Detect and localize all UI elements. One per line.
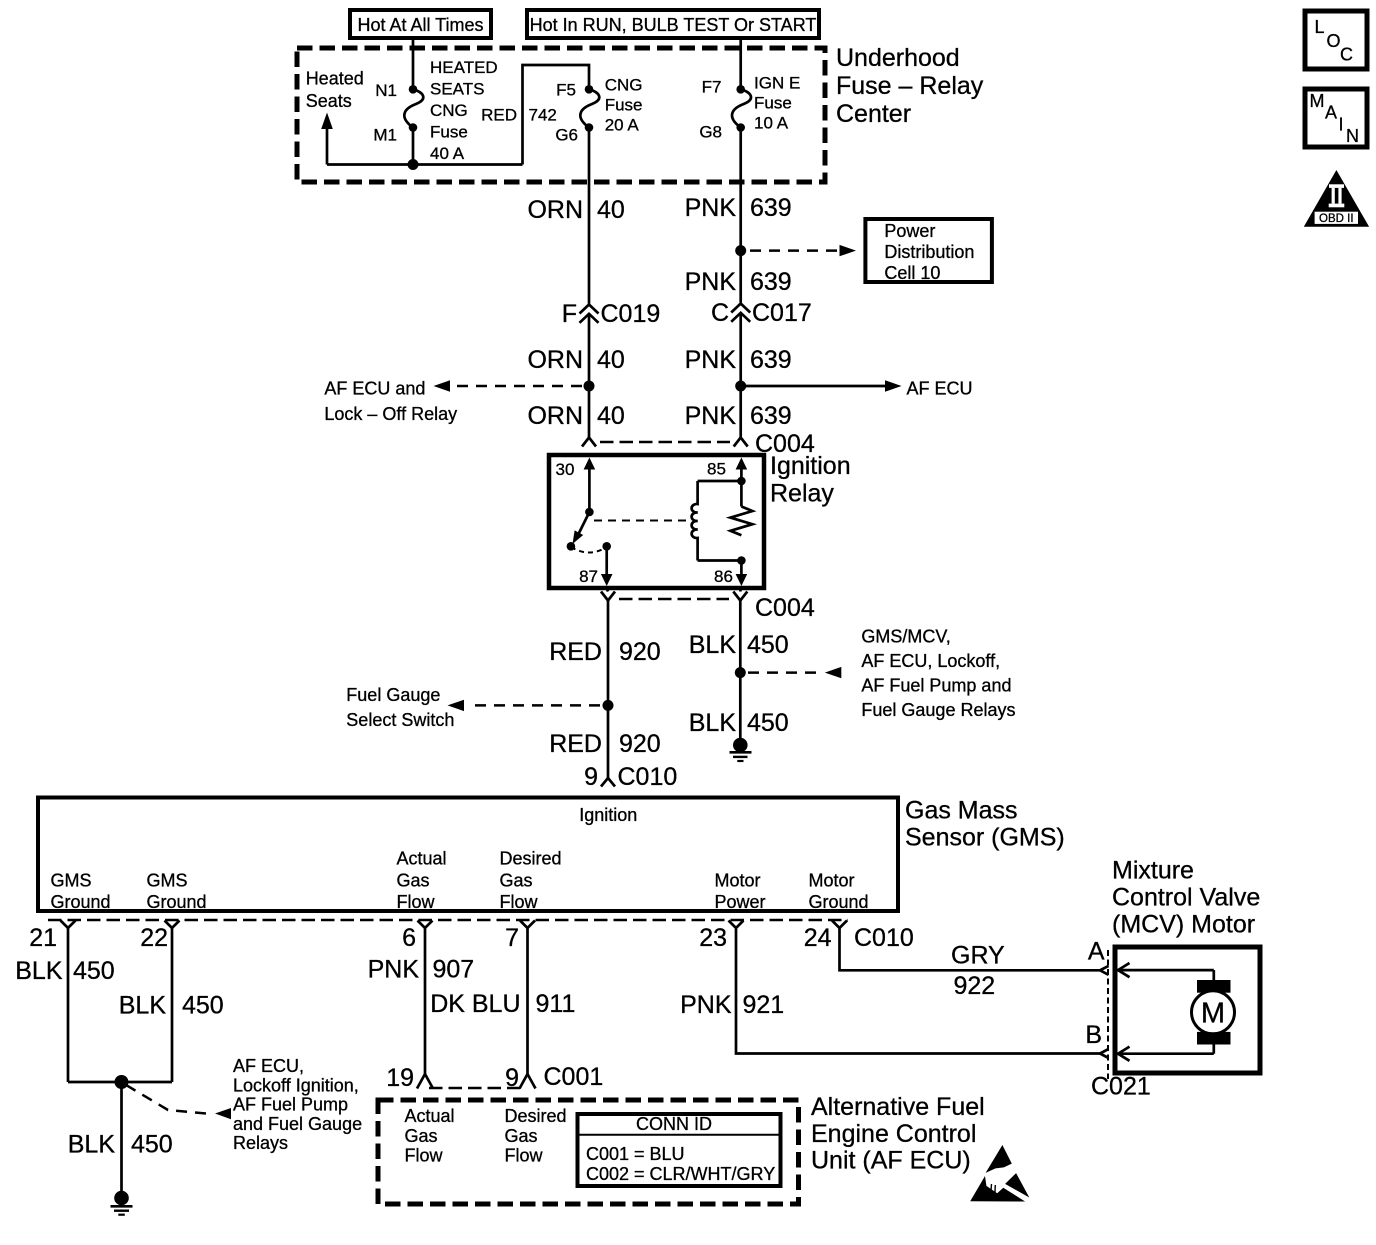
junction on ORN wire [584,381,595,392]
wire BLK 450 from C004 to ground [739,601,742,741]
svg-text:PNK: PNK [685,194,737,222]
svg-text:Lock – Off Relay: Lock – Off Relay [324,404,457,424]
connector C010: pin 9 half [601,778,615,787]
svg-text:639: 639 [750,194,792,222]
svg-text:M1: M1 [373,126,397,145]
main icon [1305,89,1367,147]
pin 30 arrow [584,458,596,517]
svg-text:Flow: Flow [505,1146,544,1166]
wire RED 742 [523,65,590,165]
wire label PNK 639 [685,346,792,374]
svg-text:40: 40 [597,346,625,374]
fuse value: HEATED SEATS CNG Fuse 40 A [430,58,498,163]
MCV pin A arrow [1118,963,1214,981]
GMS pin label: Motor Power [715,871,766,913]
arrow to Heated Seats [321,113,333,165]
junction at bottom bus [408,159,419,170]
OBD II icon [1304,170,1369,227]
fuse IGN E Fuse 10 A (F7-G8) [732,85,751,132]
ESD sensitivity symbol [970,1145,1029,1202]
svg-text:BLK: BLK [689,631,737,659]
GMS pin label: Actual Gas Flow [397,849,447,913]
svg-text:PNK: PNK [368,956,420,984]
wire label RED 920 [549,730,661,758]
relay resistor [730,507,752,536]
switch dashed arc to pin 87 [571,547,607,553]
svg-text:Motor: Motor [809,871,855,891]
svg-text:BLK: BLK [689,709,737,737]
label: AF ECU and Lock-Off Relay [324,379,457,425]
svg-text:RED: RED [549,638,602,666]
label box: Hot In RUN, BULB TEST Or START [527,10,819,38]
wire GRY 922 (pin 24) [840,928,1101,970]
svg-text:C: C [711,299,729,327]
svg-text:24: 24 [804,924,832,952]
svg-text:Flow: Flow [397,892,436,912]
svg-text:F5: F5 [556,81,576,100]
svg-text:BLK: BLK [68,1131,116,1159]
junction to Fuel Gauge Select Switch [603,700,614,711]
box: MCV Motor [1115,947,1260,1073]
svg-text:9: 9 [584,763,598,791]
svg-text:C010: C010 [854,924,914,952]
svg-text:Fuse: Fuse [430,123,468,142]
connector C017 [731,304,750,322]
svg-text:AF Fuel Pump and: AF Fuel Pump and [861,676,1011,696]
svg-text:HEATED: HEATED [430,58,498,77]
motor top brush [1197,980,1231,993]
svg-text:85: 85 [707,460,726,479]
svg-text:Heated: Heated [306,69,364,89]
connector C001 pin 9 half [520,1074,536,1089]
svg-text:G8: G8 [699,123,722,142]
box: Power Distribution Cell 10 [865,219,992,283]
svg-text:N: N [1346,126,1359,146]
svg-text:BLK: BLK [15,957,63,985]
wire PNK 639 from G8 down to C017 [739,132,742,303]
junction to Power Distribution [735,245,746,256]
label: AF ECU, Lockoff Ignition, AF Fuel Pump and Fuel Gauge Relays [233,1056,362,1153]
box: Gas Mass Sensor (GMS) [38,798,898,912]
svg-text:Relay: Relay [770,480,834,508]
svg-text:Mixture: Mixture [1112,857,1194,885]
svg-text:RED: RED [549,730,602,758]
wire BLK 450 to ground [120,1082,123,1193]
AF ECU pin label: Actual Gas Flow [405,1106,455,1166]
svg-text:B: B [1085,1021,1102,1049]
wire label BLK 450 [689,709,789,737]
svg-text:ORN: ORN [527,346,583,374]
Underhood Fuse-Relay Center dashed box [297,48,825,182]
svg-text:Gas: Gas [397,871,430,891]
wire label RED 742 [481,106,557,125]
svg-text:Power: Power [884,221,935,241]
svg-text:Motor: Motor [715,871,761,891]
wire label ORN 40 [527,196,624,224]
svg-text:AF ECU and: AF ECU and [324,379,425,399]
svg-text:920: 920 [619,730,661,758]
pin 87 contact [601,542,613,586]
svg-text:40: 40 [597,402,625,430]
svg-text:C019: C019 [601,300,661,328]
svg-text:ORN: ORN [527,196,583,224]
label box: Hot At All Times [350,10,491,38]
loc icon [1305,11,1367,69]
svg-text:87: 87 [579,567,598,586]
label: GMS/MCV, AF ECU, Lockoff, AF Fuel Pump and Fuel Gauge Relays [861,627,1015,721]
junction to relays note [735,667,746,678]
svg-text:Gas: Gas [405,1126,438,1146]
label: Heated Seats [306,69,364,112]
motor M circle [1192,991,1235,1034]
svg-text:Gas: Gas [500,871,533,891]
wire label BLK 450 (ground) [68,1131,173,1159]
svg-text:Relays: Relays [233,1133,288,1153]
svg-text:DK BLU: DK BLU [430,990,520,1018]
svg-text:OBD II: OBD II [1319,213,1354,225]
fuse value: CNG Fuse 20 A [605,76,643,135]
svg-text:639: 639 [750,346,792,374]
connector C004 bottom: half on pin86 wire [733,592,747,601]
svg-text:22: 22 [140,924,168,952]
connector C001 dashed line [429,1087,520,1090]
wire label PNK 921 [680,991,784,1019]
svg-text:450: 450 [131,1131,173,1159]
svg-text:C010: C010 [618,763,678,791]
svg-text:GMS/MCV,: GMS/MCV, [861,627,950,647]
connector C004 top dashed line [600,441,730,444]
svg-text:911: 911 [536,990,576,1018]
svg-text:C021: C021 [1091,1073,1151,1101]
svg-text:Gas: Gas [505,1126,538,1146]
dashed box: Alternative Fuel Engine Control Unit (AF ECU) [378,1100,799,1204]
svg-text:(MCV) Motor: (MCV) Motor [1112,911,1255,939]
svg-text:40: 40 [597,196,625,224]
C010 pin 6 half [418,921,433,929]
C010 pin 24 half [832,921,847,929]
wire label ORN 40 [527,402,624,430]
wire label BLK 450 (21) [15,957,114,985]
wire label BLK 450 [689,631,789,659]
wire label ORN 40 [527,346,624,374]
title: Alternative Fuel Engine Control Unit (AF ECU) [811,1093,985,1175]
svg-text:Ground: Ground [809,892,869,912]
svg-text:IGN E: IGN E [754,74,800,93]
svg-text:CNG: CNG [430,101,468,120]
svg-text:CONN ID: CONN ID [636,1114,712,1134]
svg-text:Actual: Actual [397,849,447,869]
svg-text:M: M [1310,91,1325,111]
fuse HEATED SEATS CNG Fuse 40 A (N1-M1) [404,85,423,132]
svg-text:Fuse: Fuse [605,96,643,115]
wire label BLK 450 (22) [119,992,224,1020]
svg-text:450: 450 [182,992,224,1020]
fuse CNG Fuse 20 A (F5-G6) [580,85,599,132]
GMS pin label: Motor Ground [809,871,869,913]
svg-text:Sensor (GMS): Sensor (GMS) [905,824,1065,852]
svg-text:RED: RED [481,106,517,125]
svg-text:Power: Power [715,892,766,912]
motor bottom brush [1197,1032,1231,1045]
svg-text:Flow: Flow [405,1146,444,1166]
connector C021 half at B [1100,1049,1109,1058]
svg-text:921: 921 [743,991,785,1019]
svg-text:Control Valve: Control Valve [1112,884,1260,912]
svg-text:and Fuel Gauge: and Fuel Gauge [233,1114,362,1134]
svg-text:ORN: ORN [527,402,583,430]
connector C004 bottom dashed line [619,598,729,601]
svg-text:639: 639 [750,268,792,296]
wire ORN 40 from G6 down to C019 [588,132,591,304]
connector C004 top: half on PNK wire [734,438,748,447]
relay box: Ignition Relay [549,455,764,588]
junction on ground bus [115,1075,129,1089]
C010 pin 7 half [520,921,535,929]
connector C004 bottom: half on pin87 wire [601,592,615,601]
svg-text:Engine Control: Engine Control [811,1120,976,1148]
svg-text:GRY: GRY [951,942,1005,970]
svg-text:Ignition: Ignition [579,805,637,825]
svg-text:GMS: GMS [147,871,188,891]
svg-text:30: 30 [556,460,575,479]
svg-text:I: I [1339,115,1344,135]
dashed arrow from AF ECU, Lockoff Ignition relays [126,1085,231,1119]
C010 pin 22 half [165,921,180,929]
svg-text:N1: N1 [375,81,397,100]
GMS pin label: Desired Gas Flow [500,849,562,913]
connector C001 pin 19 half [417,1074,433,1089]
svg-text:23: 23 [699,924,727,952]
svg-text:86: 86 [714,567,733,586]
svg-text:Alternative Fuel: Alternative Fuel [811,1093,985,1121]
wire label GRY 922 [951,942,1005,1001]
svg-text:C001 = BLU: C001 = BLU [586,1144,685,1164]
label: Fuel Gauge Select Switch [346,685,454,730]
wire PNK 907 (pin 6) [424,928,427,1074]
svg-text:M: M [1201,998,1225,1030]
pin 85 arrow [736,458,748,507]
ground bus wire [68,1081,172,1084]
wire ORN 40 from C019 to junction [588,314,591,438]
dashed arrow to Power Distribution Cell 10 [750,245,856,256]
svg-text:F: F [562,300,577,328]
svg-text:A: A [1088,938,1105,966]
GMS pin label: GMS Ground (22) [147,871,207,913]
svg-text:Fuse – Relay: Fuse – Relay [836,72,984,100]
switch linkage dashed line [594,520,688,522]
arrow to AF ECU [745,380,902,391]
MCV pin B arrow [1118,1044,1214,1061]
wire from Hot At All Times to fuse N1 [412,38,415,86]
title: Underhood Fuse-Relay Center [836,44,984,128]
svg-text:Ignition: Ignition [770,452,851,480]
svg-text:Seats: Seats [306,91,352,111]
connector C004 top: half on ORN wire [582,438,596,447]
wire DK BLU 911 (pin 7) [526,928,529,1074]
svg-text:922: 922 [954,972,996,1000]
svg-text:Desired: Desired [500,849,562,869]
svg-text:Actual: Actual [405,1106,455,1126]
svg-text:920: 920 [619,638,661,666]
wire from Hot In RUN box to fuse F7 [739,38,742,86]
svg-text:40 A: 40 A [430,144,465,163]
svg-text:C002 = CLR/WHT/GRY: C002 = CLR/WHT/GRY [586,1164,775,1184]
ground symbol (right) [730,738,752,761]
svg-text:PNK: PNK [685,268,737,296]
ground symbol (left) [111,1191,133,1215]
svg-text:C017: C017 [752,299,812,327]
svg-text:F7: F7 [702,78,722,97]
connector C021 half at A [1100,966,1109,975]
svg-text:C001: C001 [544,1063,604,1091]
svg-text:Underhood: Underhood [836,44,960,72]
svg-text:AF ECU, Lockoff,: AF ECU, Lockoff, [861,651,1000,671]
svg-text:907: 907 [433,956,475,984]
wire RED 920 from C004 to C010 [607,601,610,779]
svg-text:PNK: PNK [685,346,737,374]
svg-text:19: 19 [386,1064,414,1092]
junction to AF ECU [735,381,746,392]
svg-text:20 A: 20 A [605,116,640,135]
svg-text:Ground: Ground [51,892,111,912]
CONN ID table [578,1114,781,1186]
svg-text:AF ECU: AF ECU [907,379,973,399]
wire BLK 450 pin 21 [67,928,70,1082]
relay coil branch [692,481,742,561]
svg-text:10 A: 10 A [754,114,789,133]
svg-text:Fuel Gauge Relays: Fuel Gauge Relays [861,700,1015,720]
svg-text:O: O [1327,31,1341,51]
C010 pin 21 half [61,921,76,929]
svg-text:7: 7 [505,924,519,952]
svg-text:Fuse: Fuse [754,94,792,113]
C010 pin 23 half [729,921,744,929]
wire: bottom bus to Heated Seats arrow [327,163,523,166]
svg-text:Select Switch: Select Switch [346,710,454,730]
svg-text:A: A [1325,103,1337,123]
svg-text:C004: C004 [755,594,815,622]
svg-text:Fuel Gauge: Fuel Gauge [346,685,440,705]
connector C021 dashed line [1107,950,1109,1079]
svg-text:Hot In RUN, BULB TEST Or START: Hot In RUN, BULB TEST Or START [530,15,817,35]
pin 86 arrow [736,561,748,587]
svg-text:450: 450 [747,631,789,659]
wire PNK 921 (pin 23) [736,928,1100,1054]
AF ECU pin label: Desired Gas Flow [505,1106,567,1166]
svg-text:Center: Center [836,100,911,128]
svg-text:BLK: BLK [119,992,167,1020]
svg-text:21: 21 [29,924,57,952]
wire label DK BLU 911 [430,990,575,1018]
svg-text:Lockoff Ignition,: Lockoff Ignition, [233,1075,359,1095]
svg-text:Cell 10: Cell 10 [884,263,940,283]
svg-text:SEATS: SEATS [430,80,484,99]
wire PNK 639 from C017 to C004 [739,313,742,438]
svg-text:Unit (AF ECU): Unit (AF ECU) [811,1147,971,1175]
connector C019 [580,305,599,323]
wire stubs relay to C004 bottom [607,588,608,592]
svg-text:450: 450 [73,957,115,985]
connector C010 dashed line under GMS [48,919,848,922]
wire BLK 450 pin 22 [171,928,174,1082]
svg-text:639: 639 [750,402,792,430]
svg-text:PNK: PNK [680,991,732,1019]
svg-text:AF Fuel Pump: AF Fuel Pump [233,1095,348,1115]
wire M1 down to bottom bus [412,132,415,165]
svg-text:L: L [1315,17,1325,37]
svg-text:450: 450 [747,709,789,737]
fuse value: IGN E Fuse 10 A [754,74,800,133]
dashed arrow from GMS/MCV relays [748,667,841,678]
svg-text:CNG: CNG [605,76,643,95]
junction dot at coil top [737,477,746,486]
switch blade [567,512,590,551]
svg-text:C: C [1340,45,1353,65]
svg-text:G6: G6 [555,126,578,145]
title: Gas Mass Sensor (GMS) [905,797,1065,852]
svg-text:AF ECU,: AF ECU, [233,1056,304,1076]
svg-text:PNK: PNK [685,402,737,430]
title: Ignition Relay [770,452,851,508]
wire label PNK 639 [685,194,792,222]
wire label PNK 907 [368,956,475,984]
svg-text:Distribution: Distribution [884,242,974,262]
svg-text:Hot At All Times: Hot At All Times [357,15,483,35]
svg-text:Desired: Desired [505,1106,567,1126]
dashed arrow to AF ECU and Lock-Off Relay [434,380,583,391]
wire label PNK 639 [685,268,792,296]
svg-text:Flow: Flow [500,892,539,912]
svg-text:6: 6 [402,924,416,952]
svg-text:742: 742 [529,106,557,125]
wire label PNK 639 [685,402,792,430]
title: Mixture Control Valve (MCV) Motor [1112,857,1260,939]
svg-text:Ground: Ground [147,892,207,912]
svg-text:Gas Mass: Gas Mass [905,797,1018,825]
dashed arrow to Fuel Gauge Select Switch [448,700,601,711]
GMS pin label: GMS Ground (21) [51,871,111,913]
wire label RED 920 [549,638,661,666]
junction dot at coil bottom [737,556,746,565]
svg-text:GMS: GMS [51,871,92,891]
